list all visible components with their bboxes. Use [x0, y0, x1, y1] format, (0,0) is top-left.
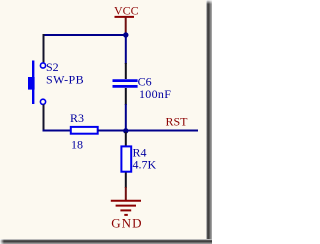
wire: top horizontal VCC rail from corner to junction	[43, 34, 127, 36]
switch S2 (push-button SW-PB)	[28, 61, 46, 105]
pin: R4 top pin (dark)	[125, 132, 127, 146]
label S2	[46, 60, 59, 74]
svg-text:18: 18	[71, 137, 83, 151]
pin: C6 top pin (dark)	[125, 63, 127, 79]
label C6	[138, 75, 152, 89]
ground symbol GND	[111, 187, 141, 215]
pin: C6 bottom pin (dark)	[125, 88, 127, 105]
svg-text:RST: RST	[166, 114, 189, 128]
junction: VCC rail node	[123, 32, 128, 37]
svg-text:SW-PB: SW-PB	[46, 73, 84, 87]
label SW-PB	[46, 73, 84, 87]
svg-text:R3: R3	[70, 111, 84, 125]
svg-text:4.7K: 4.7K	[133, 158, 157, 172]
wire: junction down to C6 top pin	[125, 35, 127, 64]
svg-text:100nF: 100nF	[139, 87, 171, 101]
wire: C6 bottom pin down to RST junction	[125, 104, 127, 131]
junction: RST node	[123, 128, 128, 133]
wire: switch bottom to corner down-left of R3	[43, 104, 45, 130]
wire: R3 right pin to junction	[98, 130, 126, 132]
value 18	[71, 137, 83, 151]
wire: RST net to the right	[126, 130, 198, 132]
label GND	[111, 215, 142, 230]
svg-text:VCC: VCC	[114, 4, 139, 18]
label R3	[70, 111, 84, 125]
svg-text:GND: GND	[111, 215, 142, 230]
wire: corner to R3 left pin	[43, 130, 71, 132]
resistor R4	[121, 146, 131, 171]
value 100nF	[139, 87, 171, 101]
VCC power symbol	[115, 17, 135, 34]
net label VCC	[114, 4, 139, 18]
wire: left vertical drop to switch S2 top pin	[43, 34, 45, 63]
capacitor C6	[113, 81, 138, 87]
value 4.7K	[133, 158, 157, 172]
pin: R4 bottom pin (dark)	[125, 173, 127, 189]
label R4	[133, 146, 147, 160]
net label RST	[166, 114, 189, 128]
resistor R3	[71, 127, 98, 134]
